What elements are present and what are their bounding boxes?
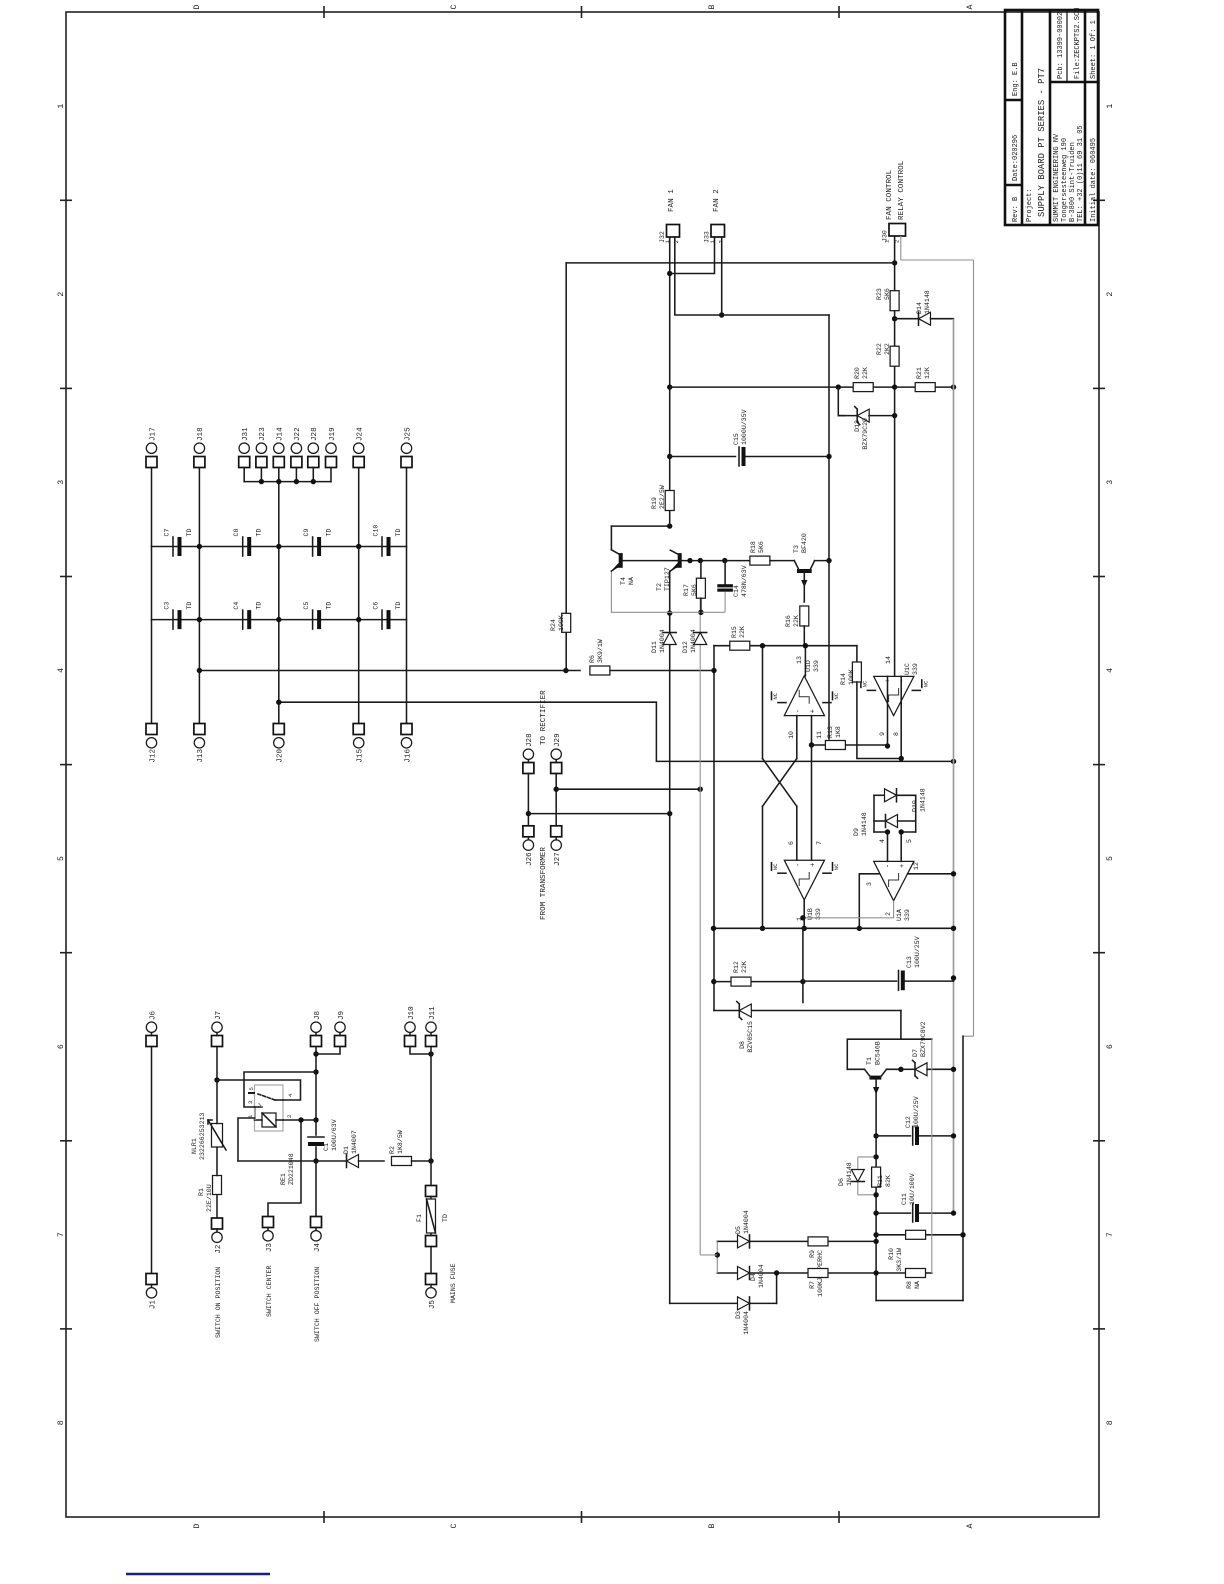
resistor R22 — [876, 343, 899, 366]
wire lower rail — [962, 1036, 964, 1300]
node T1-D7 — [898, 1067, 903, 1072]
svg-text:R21: R21 — [916, 367, 923, 379]
diode D7 zener — [901, 1021, 954, 1078]
label SWITCH CENTER — [266, 1266, 273, 1317]
node rectifier feed tap — [276, 700, 281, 705]
connector J2 — [212, 1218, 223, 1254]
wire T1 base line — [875, 1078, 877, 1300]
transistor T1 — [847, 1041, 901, 1094]
wire fuse to J11 — [430, 1047, 432, 1186]
svg-text:R24: R24 — [550, 619, 557, 631]
svg-text:J9: J9 — [338, 1010, 346, 1020]
svg-text:C6: C6 — [373, 602, 380, 610]
connector J27 — [551, 826, 562, 866]
node rail-C13 bottom — [951, 926, 956, 931]
svg-text:-: - — [884, 864, 892, 868]
node D12 line tap — [698, 787, 703, 792]
label SWITCH ON POSITION — [215, 1267, 222, 1338]
transistor T3 — [793, 533, 815, 587]
connector J28 — [523, 733, 534, 774]
svg-text:1N4007: 1N4007 — [351, 1130, 358, 1154]
wire D9/D10 top bar — [874, 795, 890, 834]
svg-text:J18: J18 — [197, 427, 205, 441]
diode D14 — [895, 290, 954, 325]
U1D NC stubs — [772, 692, 841, 703]
U1A pin 4 input — [879, 832, 888, 861]
U1A pin 5 input — [901, 832, 913, 861]
svg-text:D8: D8 — [739, 1041, 746, 1049]
svg-text:100K: 100K — [817, 1281, 824, 1297]
wire U1D pin10 to crossover to rail — [760, 806, 765, 931]
svg-text:NC: NC — [922, 680, 929, 687]
svg-text:5K6: 5K6 — [758, 541, 765, 553]
node R20 top / D13 branch — [836, 384, 841, 389]
capacitor C13 — [803, 936, 956, 990]
svg-text:D13: D13 — [854, 420, 861, 432]
svg-text:SWITCH ON POSITION: SWITCH ON POSITION — [215, 1267, 222, 1338]
connector J26 — [523, 826, 534, 866]
resistor R13 — [812, 726, 888, 749]
node NLR1-relay junction — [214, 1077, 219, 1082]
svg-text:Rev: B: Rev: B — [1012, 197, 1020, 222]
wire J27 branch to D12 line — [556, 788, 700, 790]
resistor R2 — [389, 1130, 412, 1165]
svg-text:2: 2 — [286, 1115, 293, 1118]
capacitor C10 — [373, 525, 403, 556]
svg-text:T1: T1 — [866, 1057, 873, 1065]
svg-text:J27: J27 — [554, 852, 562, 866]
svg-text:2: 2 — [885, 912, 892, 916]
svg-text:3: 3 — [1106, 480, 1115, 485]
svg-text:R9: R9 — [809, 1250, 816, 1258]
node R13 bottom — [885, 743, 890, 748]
svg-text:J23: J23 — [259, 427, 267, 441]
svg-text:C1: C1 — [323, 1143, 330, 1151]
wire NLR1 node to relay pin 4 — [217, 1080, 301, 1100]
cap bank rail 2 — [152, 619, 407, 621]
svg-text:2K2: 2K2 — [884, 343, 891, 355]
cap bank rail 1 — [152, 546, 407, 548]
svg-text:File:ZECKPTS2.SCH: File:ZECKPTS2.SCH — [1074, 8, 1082, 79]
svg-text:J20: J20 — [277, 749, 285, 763]
svg-text:J14: J14 — [277, 427, 285, 441]
svg-text:C13: C13 — [906, 956, 913, 968]
svg-text:Project:: Project: — [1026, 188, 1034, 222]
U1C NC stubs — [861, 680, 929, 691]
svg-text:R22: R22 — [876, 343, 883, 355]
svg-text:7: 7 — [816, 841, 823, 845]
svg-text:6: 6 — [1106, 1044, 1115, 1049]
wire T4 collector to R19 node — [611, 525, 669, 527]
svg-text:J31: J31 — [242, 427, 250, 441]
relay coil — [255, 1107, 284, 1127]
connector J15 — [353, 724, 364, 763]
svg-text:3: 3 — [866, 882, 873, 886]
svg-text:J29: J29 — [554, 733, 562, 747]
node T4 emitter junction — [667, 610, 672, 615]
svg-text:6: 6 — [57, 1044, 66, 1049]
wire U1C output to J30 pin1 line — [894, 236, 896, 676]
wire T4 collector-emitter column — [611, 611, 725, 613]
wire J30 pin1 supply column — [566, 262, 894, 264]
label MAINS FUSE — [450, 1263, 457, 1303]
resistor R12 — [714, 961, 803, 986]
svg-text:NC: NC — [772, 692, 779, 699]
svg-text:1000U/35V: 1000U/35V — [741, 409, 748, 445]
op-amp U1C — [874, 663, 919, 716]
zener D8 — [737, 1002, 754, 1053]
svg-text:22K: 22K — [862, 367, 869, 379]
connector bus J21-J19 — [244, 481, 331, 483]
svg-text:1: 1 — [57, 104, 66, 109]
op-amp U1B — [784, 860, 824, 920]
svg-text:J28: J28 — [311, 427, 319, 441]
svg-text:J6: J6 — [149, 1010, 157, 1020]
resistor R8 — [906, 1269, 926, 1289]
node J26 branch — [526, 811, 531, 816]
zener D13 — [838, 407, 894, 450]
diode D12 — [682, 629, 707, 653]
svg-text:5K6: 5K6 — [691, 584, 698, 596]
svg-text:-: - — [795, 863, 803, 867]
wire R20-R21 column — [670, 386, 954, 388]
node C15 top — [667, 454, 672, 459]
wire R2 to fuse line — [412, 1160, 432, 1162]
connector J28 — [308, 427, 319, 482]
node D11 line tap — [667, 811, 672, 816]
wire crossover to R15 node — [762, 646, 764, 759]
svg-text:100K: 100K — [848, 669, 855, 685]
node rail-D1 — [313, 1158, 318, 1163]
svg-text:U1C: U1C — [904, 663, 911, 675]
connector J23 — [256, 427, 267, 482]
svg-text:J28: J28 — [526, 733, 534, 747]
svg-text:A: A — [966, 4, 975, 9]
resistor R16 — [785, 606, 809, 627]
resistor R23 — [876, 288, 899, 311]
svg-text:TD: TD — [326, 602, 333, 610]
svg-text:SUPPLY BOARD PT SERIES - PT7: SUPPLY BOARD PT SERIES - PT7 — [1037, 68, 1047, 217]
wire J33 pin2 / C15 bottom line — [719, 237, 829, 318]
resistor R17 — [683, 561, 705, 613]
svg-text:R11: R11 — [877, 1175, 884, 1187]
svg-text:Sheet: 1 Of: 1: Sheet: 1 Of: 1 — [1090, 20, 1098, 79]
node J10-J11 — [428, 1051, 433, 1056]
wire T2-T4 base rail — [621, 560, 749, 562]
relay RE1 outline — [255, 1085, 284, 1131]
node rail-J9 — [313, 1051, 318, 1056]
wire R19-fan line — [669, 237, 671, 526]
svg-text:6: 6 — [788, 841, 795, 845]
svg-text:NC: NC — [772, 863, 779, 870]
svg-text:F1: F1 — [416, 1214, 423, 1222]
connector J4 — [311, 1217, 322, 1253]
node base-R17 — [698, 558, 703, 563]
svg-text:8: 8 — [1106, 1420, 1115, 1425]
wire relay pin 2 to rail — [283, 1119, 316, 1121]
label SWITCH OFF POSITION — [314, 1267, 321, 1342]
U1C pin 8 input — [893, 676, 901, 758]
wire loop rail — [963, 260, 974, 1036]
svg-text:R18: R18 — [750, 541, 757, 553]
connector J32 FAN 1 — [659, 189, 680, 244]
svg-text:R23: R23 — [876, 288, 883, 300]
rail junction nodes — [197, 544, 362, 623]
U1B NC stubs — [772, 863, 841, 874]
node R24 tap — [563, 668, 568, 673]
connector J20 — [273, 724, 284, 763]
wire NLR1 to J7 — [216, 1047, 218, 1124]
svg-text:R12: R12 — [733, 961, 740, 973]
wire D3 to D4 column — [774, 1270, 779, 1303]
svg-text:4: 4 — [1106, 668, 1115, 673]
connector J5 — [426, 1274, 437, 1310]
diode D3 — [670, 1297, 777, 1335]
relay pin 1 label — [247, 1114, 254, 1118]
svg-text:B: B — [708, 4, 717, 9]
svg-text:SUMMIT ENGINEERING NV: SUMMIT ENGINEERING NV — [1053, 133, 1061, 222]
svg-text:MAINS FUSE: MAINS FUSE — [450, 1263, 457, 1303]
node coil-J3 junction — [298, 1117, 303, 1122]
svg-text:C11: C11 — [901, 1193, 908, 1205]
U1A pin 3 supply — [857, 874, 879, 931]
svg-text:A: A — [966, 1523, 975, 1528]
relay contact pin 5 — [248, 1087, 255, 1093]
svg-text:+: + — [884, 679, 892, 683]
svg-text:J11: J11 — [429, 1006, 437, 1020]
wire R6 to R15 corner — [610, 670, 714, 672]
svg-text:13: 13 — [796, 656, 803, 664]
svg-text:7: 7 — [57, 1232, 66, 1237]
node base-extra — [687, 558, 692, 563]
svg-text:5K6: 5K6 — [884, 288, 891, 300]
svg-text:14: 14 — [885, 656, 892, 664]
svg-text:R2: R2 — [389, 1146, 396, 1154]
wire U1B output line — [802, 928, 804, 1002]
svg-text:10U/100V: 10U/100V — [909, 1173, 916, 1205]
svg-text:1N4148: 1N4148 — [920, 788, 927, 812]
capacitor C1 — [308, 1119, 338, 1151]
wire R6 feed line — [199, 670, 580, 672]
svg-text:1N4004: 1N4004 — [743, 1210, 750, 1234]
svg-text:U1A: U1A — [896, 909, 903, 921]
svg-text:NA: NA — [914, 1281, 921, 1289]
svg-text:J12: J12 — [149, 749, 157, 763]
svg-text:J22: J22 — [294, 427, 302, 441]
diode D9 — [853, 812, 916, 836]
op-amp U1A — [874, 861, 914, 921]
svg-text:2: 2 — [1106, 292, 1115, 297]
U1D pin 11 input — [812, 716, 824, 745]
svg-text:TD: TD — [395, 529, 402, 537]
resistor R24 — [550, 613, 571, 632]
svg-text:478N/63V: 478N/63V — [741, 565, 748, 597]
node base-C14 — [722, 558, 727, 563]
relay RE1 labels — [280, 1153, 295, 1185]
svg-text:22K: 22K — [739, 626, 746, 638]
capacitor C12 — [873, 1096, 956, 1145]
U1D pin 10 input — [788, 716, 797, 759]
svg-text:D7: D7 — [912, 1049, 919, 1057]
relay contact pin 3 — [247, 1101, 262, 1107]
svg-text:5: 5 — [1106, 856, 1115, 861]
svg-text:TD: TD — [395, 602, 402, 610]
svg-text:2: 2 — [894, 240, 901, 243]
resistor R18 — [750, 541, 770, 565]
svg-text:9: 9 — [879, 732, 886, 736]
svg-text:R15: R15 — [731, 626, 738, 638]
capacitor C4 — [233, 602, 263, 629]
svg-text:J1: J1 — [149, 1300, 157, 1310]
svg-text:NLR1: NLR1 — [191, 1138, 198, 1154]
svg-text:Pcb: 13399-00002: Pcb: 13399-00002 — [1057, 12, 1065, 79]
svg-text:C14: C14 — [733, 585, 740, 597]
wire J16-J25 row — [406, 468, 408, 724]
wire J5 to fuse — [430, 1247, 432, 1274]
U1D pin 13 output — [796, 646, 805, 676]
title block — [1005, 10, 1098, 225]
wire D13 branch — [838, 387, 845, 416]
node J33 pin1 bracket — [667, 271, 672, 276]
node J30 pin1 — [892, 260, 897, 265]
svg-text:Date:020296: Date:020296 — [1012, 135, 1020, 181]
svg-text:22E/10U: 22E/10U — [206, 1184, 213, 1212]
U1B pin 7 input — [812, 745, 824, 860]
svg-text:TO RECTIFIER: TO RECTIFIER — [540, 690, 548, 745]
wire J2 to R1 — [216, 1195, 218, 1219]
wire D5-R9 column — [717, 1239, 879, 1244]
svg-text:D4: D4 — [750, 1273, 757, 1281]
svg-text:TD: TD — [186, 529, 193, 537]
wire TO RECTIFIER feed — [279, 702, 956, 764]
svg-text:R20: R20 — [854, 367, 861, 379]
svg-text:D3: D3 — [735, 1311, 742, 1319]
svg-text:C4: C4 — [233, 602, 240, 610]
svg-text:TD: TD — [442, 1214, 449, 1222]
wire J1 to J6 — [151, 1047, 153, 1274]
svg-text:100U/25V: 100U/25V — [914, 936, 921, 968]
node rail-relaypin — [313, 1069, 318, 1074]
connector J10 — [405, 1006, 416, 1047]
wire minus rail — [953, 319, 955, 1213]
svg-text:J8: J8 — [314, 1010, 322, 1020]
svg-text:D11: D11 — [651, 641, 658, 653]
node R20 column top — [667, 384, 672, 389]
svg-text:1: 1 — [1106, 104, 1115, 109]
svg-text:C3: C3 — [164, 602, 171, 610]
blue margin line — [126, 1573, 270, 1576]
svg-text:J5: J5 — [429, 1300, 437, 1310]
U1A pin 12 supply — [908, 862, 957, 876]
wire D4-R7-R8 column — [717, 1272, 932, 1274]
svg-text:FROM TRANSFORMER: FROM TRANSFORMER — [540, 847, 548, 920]
svg-text:SWITCH OFF POSITION: SWITCH OFF POSITION — [314, 1267, 321, 1342]
wire T1 base drop to rails — [876, 1300, 963, 1302]
svg-text:D1: D1 — [343, 1146, 350, 1154]
svg-text:D: D — [193, 1523, 202, 1528]
resistor R19 — [651, 485, 674, 510]
svg-text:TD: TD — [326, 529, 333, 537]
connector J12 — [146, 724, 157, 763]
capacitor C15 — [670, 409, 829, 466]
svg-text:100K: 100K — [558, 615, 565, 631]
diode D4 — [738, 1264, 766, 1288]
svg-text:TD: TD — [256, 602, 263, 610]
node R2-J11 line — [428, 1158, 433, 1163]
svg-text:J7: J7 — [215, 1011, 223, 1020]
svg-text:12: 12 — [913, 862, 920, 870]
svg-text:R7: R7 — [809, 1281, 816, 1289]
svg-text:R1: R1 — [198, 1188, 205, 1196]
svg-text:-: - — [899, 679, 907, 683]
grid column labels bottom — [1106, 104, 1115, 1426]
wire J9 to rail — [316, 1047, 340, 1055]
wire crossover — [763, 759, 797, 807]
node R17 left junction — [698, 610, 703, 615]
resistor R20 — [853, 367, 873, 392]
svg-text:J19: J19 — [329, 427, 337, 441]
connector J6 — [146, 1010, 157, 1046]
svg-text:R14: R14 — [840, 673, 847, 685]
resistor R6 — [589, 639, 610, 675]
svg-text:Eng: E.B: Eng: E.B — [1012, 62, 1020, 96]
connector J22 — [291, 427, 302, 482]
svg-text:J16: J16 — [404, 749, 412, 763]
svg-text:BZX79C8V2: BZX79C8V2 — [920, 1021, 927, 1057]
U1C pin 9 input — [879, 676, 888, 746]
transistor T4 — [611, 526, 635, 613]
svg-text:R13: R13 — [827, 726, 834, 738]
svg-text:R10: R10 — [888, 1248, 895, 1260]
svg-text:22K: 22K — [793, 615, 800, 627]
connector J9 — [335, 1010, 346, 1046]
svg-text:2: 2 — [57, 292, 66, 297]
svg-text:NA: NA — [628, 577, 635, 585]
svg-text:NC: NC — [833, 863, 840, 870]
svg-text:+: + — [899, 864, 907, 868]
node D14 branch — [892, 316, 897, 321]
svg-text:100U/25V: 100U/25V — [913, 1096, 920, 1128]
op-amp U1D — [784, 660, 824, 716]
transistor T2 — [656, 550, 680, 591]
connector J3 — [263, 1217, 274, 1253]
node R12 bottom — [800, 979, 805, 984]
svg-text:TEL: +32 (0)11 69 31 05: TEL: +32 (0)11 69 31 05 — [1077, 125, 1085, 222]
svg-text:1N4004: 1N4004 — [758, 1264, 765, 1288]
svg-text:-: - — [795, 709, 803, 713]
svg-text:C12: C12 — [905, 1116, 912, 1128]
svg-text:D9: D9 — [853, 828, 860, 836]
svg-text:4: 4 — [287, 1093, 294, 1097]
svg-text:C9: C9 — [303, 529, 310, 537]
svg-text:Initial date: 060495: Initial date: 060495 — [1090, 138, 1098, 222]
svg-text:BZX79C20: BZX79C20 — [862, 418, 869, 450]
svg-text:C8: C8 — [233, 529, 240, 537]
svg-text:8: 8 — [893, 732, 900, 736]
svg-text:R16: R16 — [785, 615, 792, 627]
connector J7 — [212, 1011, 223, 1047]
node D7 bottom — [951, 1067, 956, 1072]
svg-text:R6: R6 — [589, 655, 596, 663]
wire supply line y566 — [565, 263, 567, 671]
wire R8 to T1 collector node — [931, 1039, 933, 1273]
svg-text:B-3800 Sint-Truiden: B-3800 Sint-Truiden — [1069, 142, 1077, 222]
resistor R14 — [840, 646, 904, 762]
label TO RECTIFIER — [540, 690, 548, 745]
wire rail to relay pin3 — [244, 1072, 316, 1107]
U1B pin 6 input — [788, 806, 797, 860]
svg-text:J17: J17 — [149, 427, 157, 441]
